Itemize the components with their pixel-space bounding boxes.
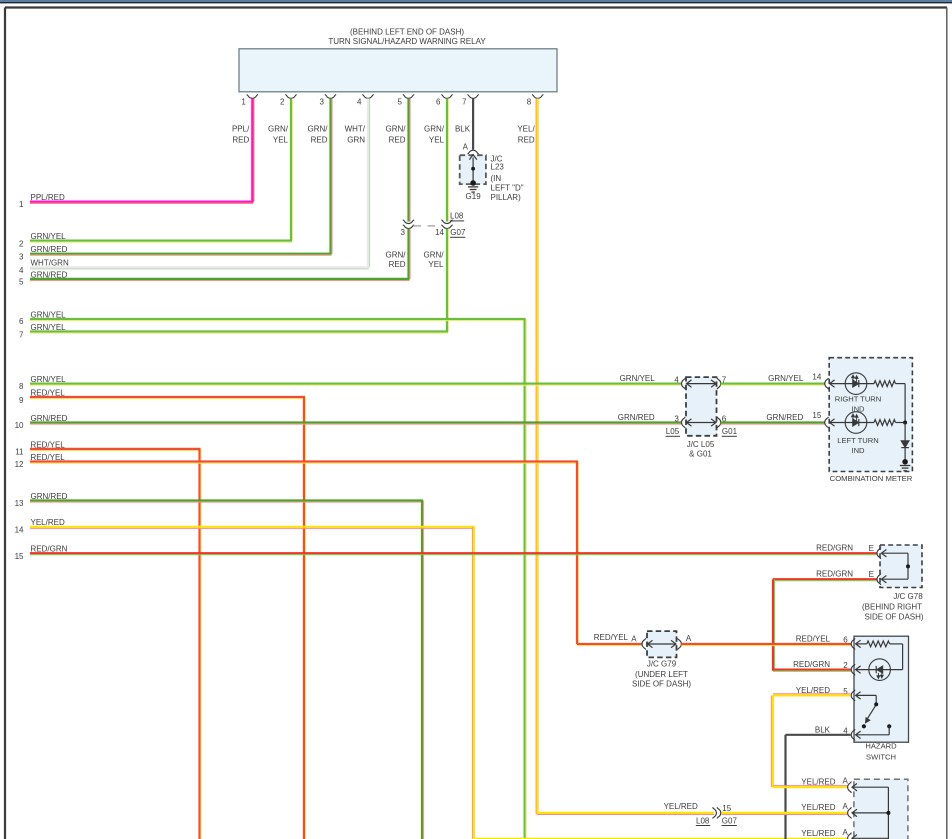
label A right of J/C G79 [686,634,692,643]
svg-text:GRN/: GRN/ [386,125,407,134]
J/C L23 internal wire [472,158,474,184]
label RIGHT TURN [835,395,882,404]
label 15 [812,411,821,420]
svg-text:COMBINATION METER: COMBINATION METER [830,474,913,483]
label YEL/RED at lamp pin A2 [801,803,835,812]
svg-text:RED/GRN: RED/GRN [816,570,853,579]
svg-text:(UNDER LEFT: (UNDER LEFT [635,670,688,679]
J/C G78 pin E bottom connector [877,574,886,585]
label G07 (underlined) at connector 15 [722,816,738,825]
svg-text:G01: G01 [722,427,738,436]
wire 6 GRN/YEL lower (connector 14 to row 7) [30,229,449,334]
svg-text:GRN/RED: GRN/RED [31,245,68,254]
pin 8 wire label YEL/RED [517,125,535,145]
svg-text:RED: RED [232,136,249,145]
svg-text:WHT/GRN: WHT/GRN [31,259,69,268]
svg-text:TURN SIGNAL/HAZARD WARNING REL: TURN SIGNAL/HAZARD WARNING RELAY [328,37,486,46]
svg-text:7: 7 [19,330,24,339]
label GRN/RED right [766,413,803,422]
label SIDE OF DASH) [864,612,923,621]
svg-text:G07: G07 [450,228,466,237]
wire YEL/RED connector 15 to bottom lamp box pin A [722,813,848,815]
label YEL/RED at lamp pin A1 [801,777,835,786]
inline connector pin 14 (G07 side) [435,220,453,237]
J/C G78 junction dot [906,564,910,568]
wire RED/YEL J/C G79 to hazard switch pin 6 [681,644,851,646]
svg-text:J/C G78: J/C G78 [893,592,923,601]
wire 12 RED/YEL (row 12 to J/C G79) [30,462,642,646]
J/C G78 internal wiring [882,553,908,579]
svg-text:HAZARD: HAZARD [865,742,897,751]
hazard pin 5 connector [851,690,860,701]
row 12 label [15,453,66,469]
wire 5 GRN/RED lower (connector 3 to row 5) [30,229,410,281]
label 4 hazard [843,726,848,735]
J/C L05 pin 7 connector [717,378,721,389]
label J/C L05 [687,440,715,449]
meter ground symbol [900,466,910,471]
svg-text:PILLAR): PILLAR) [491,193,522,202]
svg-text:RED: RED [518,136,535,145]
wire 1 PPL/RED (relay pin 1 to row 1) [30,98,254,203]
row 4 label [19,259,69,275]
svg-text:IND: IND [851,446,865,455]
svg-text:GRN/: GRN/ [424,125,445,134]
J/C L23 top connector [467,150,478,159]
label RED/YEL at hazard pin 6 [796,634,831,643]
svg-text:A: A [842,828,848,837]
svg-text:RED: RED [389,260,406,269]
relay pin 4 connector [357,95,374,107]
lamp box pin A1 connector [848,782,857,793]
svg-text:A: A [463,143,469,152]
svg-text:YEL/RED: YEL/RED [664,802,698,811]
row 3 label [19,245,68,261]
hazard pin 4 internal wire [856,726,889,735]
label 2 hazard [843,661,848,670]
label GRN/YEL right [768,374,804,383]
wire 7 GRN/YEL (row 6 to bottom edge) [30,319,526,839]
label L05 (underlined) [666,427,680,436]
J/C L23 junction dot [471,167,475,171]
row 1 label [19,193,65,209]
label (UNDER LEFT [635,670,688,679]
wire 13 GRN/RED (row 13 to bottom edge) [30,501,424,839]
inline connector 15 L08/G07 [713,804,732,819]
label J/C G79 [647,660,677,669]
svg-text:1: 1 [19,200,24,209]
label J/C L23 (IN LEFT D PILLAR) [491,155,524,203]
svg-text:GRN/RED: GRN/RED [31,414,68,423]
junction box J/C L23 [460,155,486,184]
svg-text:2: 2 [280,98,285,107]
svg-text:3: 3 [19,253,24,262]
svg-text:YEL/RED: YEL/RED [31,518,65,527]
svg-text:15: 15 [812,411,821,420]
svg-text:PPL/RED: PPL/RED [31,193,65,202]
svg-text:GRN/: GRN/ [268,125,289,134]
svg-text:GRN/RED: GRN/RED [766,413,803,422]
right turn indicator LED circle [845,373,867,395]
label A1 [842,776,848,785]
svg-text:15: 15 [15,552,24,561]
label RED/YEL before J/C G79 [594,633,629,642]
row 7 label [19,323,66,339]
label J/C G78 [893,592,923,601]
label YEL/RED at hazard pin 5 [796,686,830,695]
wire BLK hazard pin 4 to bottom edge [786,735,851,839]
lamp box pin A2 connector [848,807,857,818]
svg-text:& G01: & G01 [689,450,712,459]
svg-text:GRN/RED: GRN/RED [31,492,68,501]
wire GRN/RED J/C L05 pin 6 to combination meter pin 15 [721,423,825,425]
svg-text:RED/GRN: RED/GRN [31,545,68,554]
inline connector pin 3 (L08 side) [401,220,415,237]
junction box J/C L05 & G01 [686,377,717,436]
label G19 [466,192,482,201]
hazard resistor circuit [856,641,902,670]
svg-text:L05: L05 [666,427,680,436]
svg-text:YEL: YEL [429,136,445,145]
svg-text:6: 6 [436,98,441,107]
svg-text:E: E [869,544,874,553]
hazard LED wire [856,669,902,671]
label IND (left) [851,446,865,455]
svg-text:12: 12 [15,460,24,469]
label YEL/RED at lamp pin A3 [801,829,835,838]
svg-text:RED/GRN: RED/GRN [793,660,830,669]
label 14 [812,372,821,381]
wire 14 YEL/RED (row 14 to bottom lamp box pin A) [30,527,848,839]
meter pin 15 connector [825,417,835,428]
lamp box internal wire middle [853,812,889,814]
dashed link between inline connectors [414,225,442,227]
J/C L23 ground dot [470,180,476,186]
svg-text:RED/YEL: RED/YEL [31,453,66,462]
svg-text:7: 7 [462,98,467,107]
lamp box pin A3 connector [848,833,857,839]
wire 4 WHT/GRN (relay pin 4 to row 4) [30,98,370,269]
wire YEL/RED pin 8 horizontal to inline connector 15 [537,813,715,815]
row 9 label [19,388,65,404]
J/C L05 internal arrow top [687,380,717,387]
wire 3 GRN/RED (relay pin 3 to row 3) [30,98,332,255]
svg-text:(BEHIND LEFT END OF DASH): (BEHIND LEFT END OF DASH) [350,28,464,37]
label GRN/YEL left of J/C L05 [620,374,656,383]
wire 9 RED/YEL (row 9 to bottom edge) [30,397,306,839]
svg-text:5: 5 [398,98,403,107]
svg-text:PPL/: PPL/ [232,125,250,134]
svg-text:6: 6 [19,317,24,326]
svg-text:10: 10 [15,421,24,430]
label 6 [722,415,727,424]
row 14 label [15,518,65,534]
svg-text:2: 2 [19,239,24,248]
label A3 [842,828,848,837]
svg-text:SIDE OF DASH): SIDE OF DASH) [632,680,691,689]
pin 3 wire label GRN/RED [308,125,329,145]
svg-text:(IN: (IN [491,174,502,183]
lamp box internal wire bottom [853,837,889,839]
svg-text:J/C G79: J/C G79 [647,660,677,669]
svg-text:RED: RED [389,136,406,145]
relay pin 2 connector [280,95,297,107]
svg-text:GRN/YEL: GRN/YEL [31,323,67,332]
junction box J/C G78 [880,545,922,588]
row 10 label [15,414,68,430]
svg-text:8: 8 [19,382,24,391]
svg-text:G07: G07 [722,816,738,825]
svg-text:GRN/: GRN/ [308,125,329,134]
svg-text:8: 8 [527,98,532,107]
label A at J/C L23 [463,143,469,152]
hazard pin 6 connector [851,638,860,649]
label COMBINATION METER [830,474,913,483]
svg-text:LEFT TURN: LEFT TURN [837,436,879,445]
label L08 (underlined) at connector 15 [696,816,710,825]
svg-text:4: 4 [357,98,362,107]
meter junction dot [903,421,907,425]
relay pin 3 connector [320,95,337,107]
pin 7 wire label BLK [455,125,471,134]
svg-text:A: A [686,634,692,643]
relay pin 1 connector [241,95,258,107]
pin 4 wire label WHT/GRN [345,125,366,145]
svg-text:GRN/YEL: GRN/YEL [31,232,67,241]
svg-text:YEL/RED: YEL/RED [801,829,835,838]
svg-text:4: 4 [843,726,848,735]
svg-text:G19: G19 [466,192,482,201]
wire BLK relay pin 7 to J/C L23 [472,98,474,149]
svg-text:GRN/YEL: GRN/YEL [768,374,804,383]
pin 2 wire label GRN/YEL [268,125,289,145]
svg-text:RED/GRN: RED/GRN [816,544,853,553]
J/C L05 internal arrow bottom [687,419,717,426]
label (BEHIND RIGHT [862,602,922,611]
svg-text:RED/YEL: RED/YEL [796,634,831,643]
svg-text:13: 13 [15,499,24,508]
svg-text:1: 1 [241,98,246,107]
wire 10 GRN/RED (row 10 to J/C L05 pin 3) [30,423,681,425]
label G07 (underlined) [450,228,466,237]
label A left of J/C G79 [631,635,637,644]
svg-text:(BEHIND RIGHT: (BEHIND RIGHT [862,602,922,611]
wire YEL/RED relay pin 8 vertical run [536,98,538,814]
meter right-turn circuit wire [830,381,905,423]
svg-text:3: 3 [674,415,679,424]
svg-text:RED: RED [311,136,328,145]
pin 6 wire label GRN/YEL [424,125,445,145]
row 2 label [19,232,66,248]
label SIDE OF DASH) g79 [632,680,691,689]
label SWITCH [866,752,896,761]
label E bottom [869,570,874,579]
J/C L05 pin 3 connector [682,417,686,428]
row 8 label [19,375,66,391]
meter ground dot [902,459,908,465]
J/C G79 pin A right connector [678,638,682,649]
svg-text:RED/YEL: RED/YEL [594,633,629,642]
left turn indicator LED circle [845,412,867,434]
svg-text:WHT/: WHT/ [345,125,366,134]
wire GRN/YEL J/C L05 pin 7 to combination meter pin 14 [721,384,825,386]
label LEFT TURN [837,436,879,445]
svg-text:6: 6 [843,636,848,645]
label HAZARD [865,742,897,751]
meter left-turn circuit wire [830,420,905,426]
svg-text:YEL/: YEL/ [517,125,535,134]
svg-text:J/C L05: J/C L05 [687,440,715,449]
pin 5 wire label GRN/RED [386,125,407,145]
ground G19 symbol [468,187,478,192]
hazard pin 2 connector [851,664,860,675]
label 6 hazard [843,636,848,645]
hazard LED circle [869,659,891,681]
svg-text:GRN/YEL: GRN/YEL [31,375,67,384]
svg-text:SIDE OF DASH): SIDE OF DASH) [864,612,923,621]
meter diode [901,423,909,460]
label (BEHIND LEFT END OF DASH) [350,28,464,37]
label E top [869,544,874,553]
label L08 (underlined) [450,212,464,221]
row 11 label [15,440,65,456]
svg-text:GRN/YEL: GRN/YEL [620,374,656,383]
svg-text:14: 14 [812,372,821,381]
label GRN/YEL under connector 14 [424,250,445,269]
wire 5 GRN/RED upper (relay pin 5 to connector 3) [409,98,411,221]
label G01 (underlined) [722,427,738,436]
svg-text:4: 4 [19,266,24,275]
hazard LED symbol [876,666,883,679]
label GRN/RED left of J/C L05 [618,413,655,422]
top browser bar [0,0,952,3]
wire 2 GRN/YEL (relay pin 2 to row 2) [30,98,293,242]
label 7 [722,376,727,385]
label GRN/RED under connector 3 [386,250,407,269]
row 15 label [15,545,68,561]
hazard switch blade circuit [856,695,891,728]
svg-text:14: 14 [15,526,24,535]
relay pin 5 connector [398,95,415,107]
svg-text:15: 15 [722,804,731,813]
wire 8 GRN/YEL (row 8 to J/C L05 pin 4) [30,384,681,386]
label RED/GRN (lower) [816,570,853,579]
pin 1 wire label PPL/RED [232,125,250,145]
lamp box junction dot [886,811,890,815]
hazard pin 4 connector [851,729,860,740]
svg-text:E: E [869,570,874,579]
label TURN SIGNAL/HAZARD WARNING RELAY [328,37,486,46]
svg-text:YEL/RED: YEL/RED [801,777,835,786]
relay pin 8 connector [527,95,544,107]
svg-text:BLK: BLK [815,725,831,734]
label 3 [674,415,679,424]
wire RED/GRN hazard pin 2 to J/C G78 pin E bottom [773,579,877,671]
svg-text:RED/YEL: RED/YEL [31,440,66,449]
svg-text:L23: L23 [491,162,505,171]
left turn LED symbol [851,414,859,426]
J/C L05 pin 6 connector [717,417,721,428]
svg-text:BLK: BLK [455,125,471,134]
svg-text:3: 3 [320,98,325,107]
svg-text:L08: L08 [450,212,464,221]
wire YEL/RED hazard pin 5 to bottom lamp box pin A [771,694,850,787]
svg-text:LEFT "D": LEFT "D" [491,184,524,193]
J/C G78 pin E top connector [877,548,886,559]
svg-text:RED/YEL: RED/YEL [31,388,66,397]
svg-text:GRN/: GRN/ [386,250,407,259]
label RED/GRN at hazard pin 2 [793,660,830,669]
row 13 label [15,492,68,508]
svg-text:A: A [842,802,848,811]
svg-text:GRN: GRN [347,136,365,145]
svg-text:GRN/: GRN/ [424,250,445,259]
svg-text:RIGHT TURN: RIGHT TURN [835,395,882,404]
label YEL/RED before connector 15 [664,802,698,811]
svg-text:2: 2 [843,661,848,670]
row 6 label [19,310,66,326]
label A2 [842,802,848,811]
svg-text:3: 3 [401,228,406,237]
label BLK at hazard pin 4 [815,725,831,734]
svg-text:9: 9 [19,396,24,405]
label 4 [674,376,679,385]
svg-text:4: 4 [674,376,679,385]
lamp box internal wire top [853,787,889,839]
junction box J/C G79 [647,631,677,657]
bottom junction box (cut off) [854,779,908,839]
wire 11 RED/YEL (row 11 to bottom edge) [30,449,201,839]
wire 6 GRN/YEL upper (relay pin 6 to connector 14) [447,98,449,221]
label IND (right) [851,405,865,414]
meter pin 14 connector [825,378,835,389]
svg-text:11: 11 [15,448,24,457]
right turn LED symbol [851,375,859,387]
svg-text:GRN/RED: GRN/RED [618,413,655,422]
combination meter box [829,358,912,472]
svg-text:YEL: YEL [273,136,289,145]
svg-text:GRN/RED: GRN/RED [31,270,68,279]
svg-text:YEL: YEL [428,260,444,269]
wire 15 RED/GRN (row 15 to J/C G78 pin E) [30,553,877,555]
svg-text:A: A [842,776,848,785]
row 5 label [19,270,68,286]
svg-text:5: 5 [19,278,24,287]
hazard switch box [854,636,909,742]
J/C G79 pin A left connector [642,638,646,649]
J/C L05 pin 4 connector [682,378,686,389]
label 5 hazard [843,687,848,696]
svg-text:SWITCH: SWITCH [866,752,896,761]
relay pin 6 connector [436,95,453,107]
svg-text:L08: L08 [696,816,710,825]
svg-text:A: A [631,635,637,644]
svg-text:YEL/RED: YEL/RED [801,803,835,812]
relay TURN SIGNAL/HAZARD WARNING RELAY box [239,49,557,92]
J/C G79 internal arrow [648,640,677,647]
relay pin 7 connector [462,95,479,107]
svg-text:14: 14 [435,228,444,237]
label RED/GRN (row 15 end) [816,544,853,553]
label & G01 [689,450,712,459]
